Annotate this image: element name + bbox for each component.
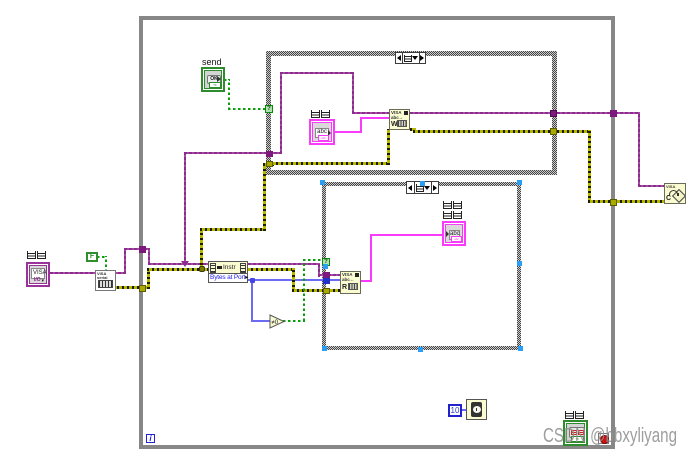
svg-text:≠0: ≠0: [272, 320, 279, 326]
